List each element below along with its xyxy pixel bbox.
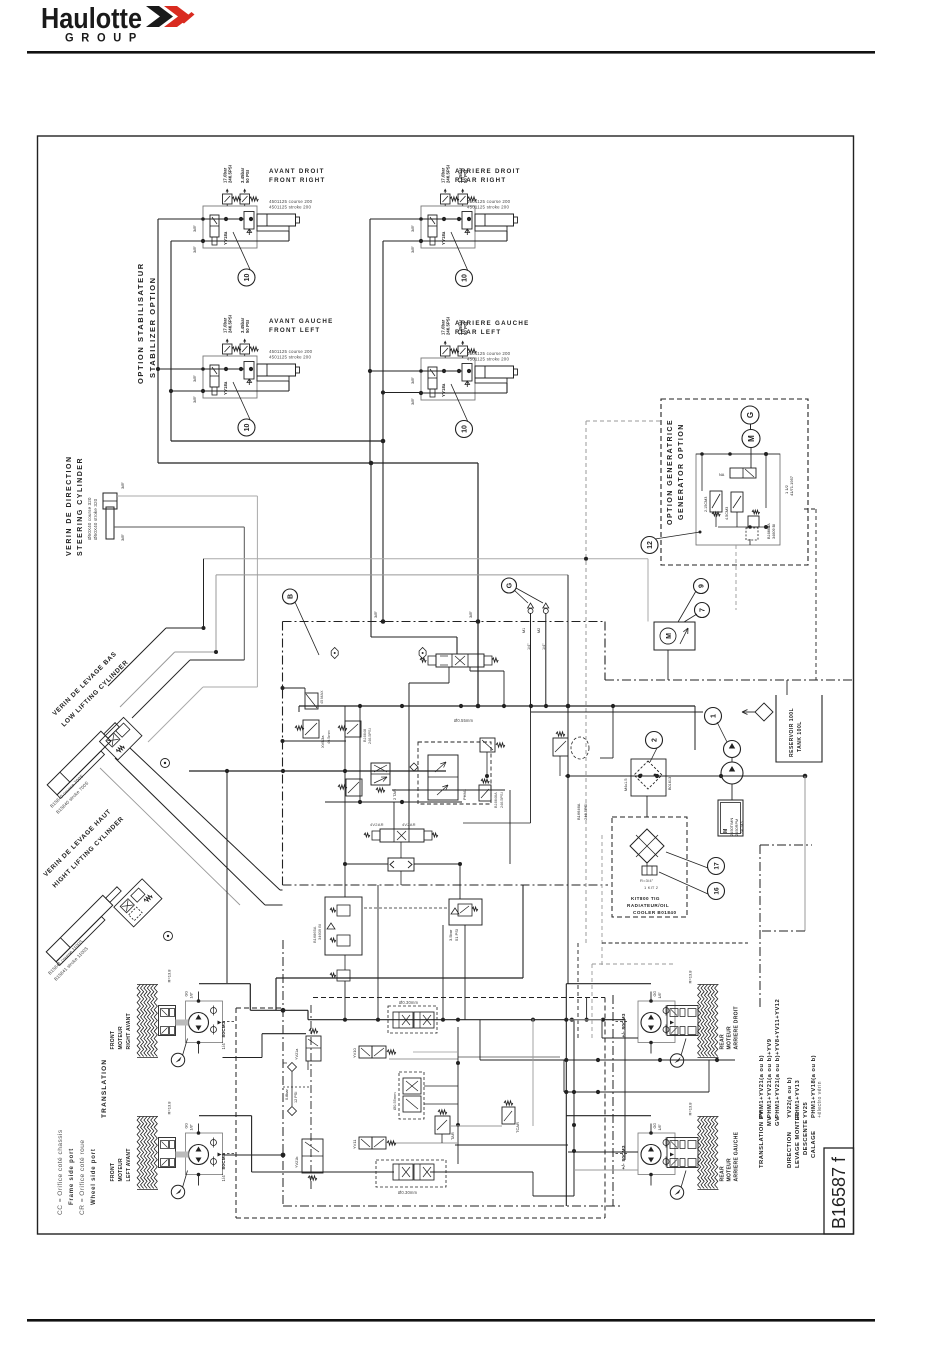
svg-text:2 TAR: 2 TAR (392, 789, 397, 800)
svg-text:YV21a: YV21a (295, 1048, 299, 1060)
svg-text:+/- 80CM3: +/- 80CM3 (621, 1013, 626, 1037)
svg-text:STABILIZER OPTION: STABILIZER OPTION (148, 276, 157, 378)
svg-text:B16587 f: B16587 f (829, 1156, 849, 1229)
svg-text:3/8": 3/8" (192, 245, 197, 253)
svg-text:R=13.8: R=13.8 (167, 1101, 172, 1115)
svg-text:Ø0.55mm: Ø0.55mm (392, 1092, 397, 1110)
svg-text:4501125 course 200: 4501125 course 200 (467, 351, 511, 356)
svg-text:TANK 100L: TANK 100L (797, 721, 803, 752)
svg-text:4501125 course 200: 4501125 course 200 (269, 199, 313, 204)
svg-text:KIT800 TIG: KIT800 TIG (631, 896, 660, 901)
svg-text:R=13.8: R=13.8 (167, 969, 172, 983)
svg-text:ARRIERE GAUCHE: ARRIERE GAUCHE (455, 320, 530, 327)
svg-text:YV11: YV11 (352, 1139, 357, 1149)
svg-text:12: 12 (647, 541, 654, 549)
svg-text:17: 17 (713, 862, 720, 870)
svg-text:REAR LEFT: REAR LEFT (455, 329, 501, 336)
svg-text:3/8": 3/8" (192, 395, 197, 403)
svg-text:246.5PSI: 246.5PSI (228, 315, 233, 333)
svg-text:3/8": 3/8" (410, 245, 415, 253)
svg-text:B16865A: B16865A (767, 523, 771, 539)
svg-text:FRONT: FRONT (110, 1031, 116, 1050)
svg-text:3/8": 3/8" (192, 224, 197, 232)
svg-text:ARRIERE DROIT: ARRIERE DROIT (455, 168, 521, 175)
svg-text:3/8": 3/8" (120, 481, 125, 489)
svg-text:80CM3: 80CM3 (221, 1153, 226, 1169)
svg-text:4.5CM3: 4.5CM3 (725, 507, 729, 520)
svg-text:DESCENTE: DESCENTE (803, 1119, 809, 1155)
svg-text:80CM3: 80CM3 (221, 1021, 226, 1037)
svg-text:41/71.1957: 41/71.1957 (789, 475, 794, 496)
svg-text:2.15CM3: 2.15CM3 (704, 497, 708, 512)
svg-text:1/4": 1/4" (527, 643, 531, 650)
svg-text:1/4": 1/4" (221, 1173, 226, 1181)
svg-text:MOTEUR: MOTEUR (727, 1026, 733, 1050)
svg-text:OPTION GENERATRICE: OPTION GENERATRICE (667, 419, 674, 525)
svg-text:B: B (288, 594, 295, 599)
svg-text:FRONT LEFT: FRONT LEFT (269, 327, 321, 334)
svg-text:B16648: B16648 (363, 729, 367, 742)
svg-text:GG: GG (653, 1123, 657, 1129)
svg-text:1/8": 1/8" (658, 992, 662, 999)
svg-text:R=3/4": R=3/4" (640, 878, 654, 883)
svg-text:LEFT AVANT: LEFT AVANT (126, 1148, 132, 1181)
svg-text:45 MAX: 45 MAX (320, 690, 324, 704)
svg-text:B16646A: B16646A (494, 792, 498, 808)
svg-text:CR = Orifice coté roue: CR = Orifice coté roue (79, 1140, 86, 1215)
svg-text:3.5bar: 3.5bar (448, 929, 453, 941)
svg-text:M: M (747, 435, 756, 442)
svg-text:NA: NA (719, 473, 725, 477)
svg-text:YV22(a ou b): YV22(a ou b) (787, 1077, 793, 1118)
svg-text:40.5mm: 40.5mm (327, 730, 331, 744)
svg-text:1/8": 1/8" (190, 992, 194, 999)
svg-text:10: 10 (244, 424, 251, 432)
svg-text:PHM1+YV13: PHM1+YV13 (795, 1080, 801, 1118)
svg-text:TAR: TAR (450, 1132, 455, 1140)
svg-text:MOTEUR: MOTEUR (727, 1158, 733, 1182)
svg-text:B16646A: B16646A (576, 803, 581, 820)
svg-text:MOTEUR: MOTEUR (118, 1158, 124, 1182)
svg-text:Ø0.55mm: Ø0.55mm (454, 718, 473, 723)
svg-text:10: 10 (462, 425, 469, 433)
svg-text:0.8bar: 0.8bar (285, 1088, 289, 1100)
svg-text:Ø0.30mm: Ø0.30mm (398, 1190, 417, 1195)
svg-text:FRONT RIGHT: FRONT RIGHT (269, 177, 326, 184)
svg-text:PHM1+YV21(a ou b)+YV9: PHM1+YV21(a ou b)+YV9 (767, 1038, 773, 1118)
svg-text:B01613: B01613 (668, 777, 672, 790)
svg-text:YV10: YV10 (352, 1047, 357, 1058)
svg-text:3/8": 3/8" (192, 374, 197, 382)
svg-text:51 PSI: 51 PSI (454, 929, 459, 941)
svg-text:2: 2 (652, 738, 659, 742)
svg-text:3/8": 3/8" (373, 610, 378, 618)
svg-text:STEERING CYLINDER: STEERING CYLINDER (77, 457, 84, 556)
svg-text:24CM3: 24CM3 (739, 821, 744, 834)
svg-text:4501125 stroke 200: 4501125 stroke 200 (467, 357, 509, 362)
svg-text:1/8": 1/8" (658, 1124, 662, 1131)
svg-text:GROUP: GROUP (65, 33, 144, 45)
svg-text:12 PSI: 12 PSI (294, 1092, 298, 1103)
svg-text:G: G (507, 582, 514, 588)
svg-text:GENERATOR OPTION: GENERATOR OPTION (678, 423, 685, 520)
svg-text:50 PSI: 50 PSI (245, 170, 250, 183)
svg-text:10: 10 (244, 274, 251, 282)
svg-text:GG: GG (185, 991, 189, 997)
svg-text:YV21b: YV21b (295, 1157, 299, 1168)
svg-text:TRANSLATION: TRANSLATION (101, 1059, 108, 1118)
svg-text:4501125 course 200: 4501125 course 200 (467, 199, 511, 204)
svg-text:3/8": 3/8" (410, 376, 415, 384)
svg-text:Wheel side port: Wheel side port (91, 1148, 97, 1205)
svg-text:9: 9 (699, 584, 706, 588)
svg-text:Frame side port: Frame side port (69, 1148, 75, 1205)
svg-text:4501125 course 200: 4501125 course 200 (269, 349, 313, 354)
svg-text:Haulotte: Haulotte (41, 3, 142, 35)
svg-text:REAR: REAR (720, 1034, 726, 1049)
svg-text:1 KIT 2: 1 KIT 2 (644, 885, 659, 890)
svg-text:REAR RIGHT: REAR RIGHT (455, 177, 507, 184)
svg-text:3/8": 3/8" (410, 224, 415, 232)
svg-text:1/4": 1/4" (542, 643, 546, 650)
svg-text:4501125 stroke 200: 4501125 stroke 200 (467, 205, 509, 210)
svg-text:PHM1+YV21(a ou b)+YV8+YV11+YV1: PHM1+YV21(a ou b)+YV8+YV11+YV12 (775, 999, 781, 1118)
svg-text:4V2AR: 4V2AR (370, 822, 384, 827)
svg-text:3/8": 3/8" (410, 397, 415, 405)
svg-text:Ø0.30mm: Ø0.30mm (399, 1000, 418, 1005)
svg-text:YV25: YV25 (803, 1102, 809, 1118)
svg-text:+électro vérin: +électro vérin (817, 1081, 823, 1118)
svg-text:ARRIERE GAUCHE: ARRIERE GAUCHE (734, 1131, 740, 1181)
svg-text:YV18a: YV18a (441, 383, 446, 397)
svg-text:LEVAGE MONTEE: LEVAGE MONTEE (795, 1112, 801, 1168)
svg-text:OPTION STABILISATEUR: OPTION STABILISATEUR (136, 262, 145, 384)
svg-text:CALAGE: CALAGE (811, 1131, 817, 1158)
svg-text:YV18a: YV18a (223, 231, 228, 245)
svg-text:246.5PSI: 246.5PSI (446, 165, 451, 183)
svg-text:M4x1.5: M4x1.5 (624, 779, 628, 791)
svg-text:4501125 stroke 200: 4501125 stroke 200 (269, 355, 311, 360)
svg-text:YV18a: YV18a (223, 381, 228, 395)
svg-text:246.5PSI: 246.5PSI (500, 792, 504, 808)
svg-text:246.5PSI: 246.5PSI (368, 728, 372, 744)
svg-text:AVANT DROIT: AVANT DROIT (269, 168, 325, 175)
svg-text:TCAR: TCAR (515, 1122, 520, 1133)
svg-text:REAR: REAR (720, 1166, 726, 1181)
svg-text:34609 BI: 34609 BI (772, 524, 776, 539)
svg-text:RESERVOIR 100L: RESERVOIR 100L (789, 708, 795, 757)
svg-text:GG: GG (185, 1123, 189, 1129)
svg-text:M2: M2 (537, 628, 541, 633)
svg-text:MOTEUR: MOTEUR (118, 1026, 124, 1050)
svg-text:4V2AR: 4V2AR (402, 822, 416, 827)
svg-text:COOLER B01840: COOLER B01840 (633, 910, 677, 915)
svg-text:M1: M1 (522, 628, 526, 633)
svg-text:3/8": 3/8" (120, 533, 125, 541)
svg-text:10: 10 (462, 274, 469, 282)
svg-text:Ø50X40 stroke 320: Ø50X40 stroke 320 (93, 498, 98, 540)
svg-text:7: 7 (700, 608, 707, 612)
svg-text:ARRIERE DROIT: ARRIERE DROIT (734, 1006, 740, 1049)
svg-text:50 PSI: 50 PSI (245, 320, 250, 333)
svg-text:R=13.8: R=13.8 (688, 970, 693, 984)
svg-text:1/8": 1/8" (190, 1124, 194, 1131)
svg-text:DIRECTION: DIRECTION (787, 1132, 793, 1168)
svg-text:4501125 stroke 200: 4501125 stroke 200 (269, 205, 311, 210)
svg-text:Ø50X40 course 320: Ø50X40 course 320 (87, 497, 92, 540)
svg-text:G: G (746, 412, 755, 418)
svg-text:YV18a: YV18a (441, 231, 446, 245)
svg-text:GG: GG (653, 991, 657, 997)
svg-text:34609 BI: 34609 BI (317, 924, 322, 940)
svg-text:1/4": 1/4" (221, 1041, 226, 1049)
svg-text:246.5PSI: 246.5PSI (446, 317, 451, 335)
svg-text:+/- 80CM3: +/- 80CM3 (621, 1145, 626, 1169)
svg-text:3/8": 3/8" (468, 610, 473, 618)
svg-text:AVANT GAUCHE: AVANT GAUCHE (269, 318, 334, 325)
svg-text:R=13.8: R=13.8 (688, 1102, 693, 1116)
svg-text:RADIATEUR/OIL: RADIATEUR/OIL (627, 903, 669, 908)
svg-text:CC = Orifice coté chassis: CC = Orifice coté chassis (57, 1129, 64, 1215)
svg-text:246.5PSI: 246.5PSI (583, 804, 588, 820)
svg-text:PHM1+YV21(a ou b): PHM1+YV21(a ou b) (759, 1055, 765, 1118)
svg-text:1: 1 (711, 714, 718, 718)
svg-text:16: 16 (713, 887, 720, 895)
svg-text:FRONT: FRONT (110, 1163, 116, 1182)
svg-text:VERIN DE DIRECTION: VERIN DE DIRECTION (66, 455, 73, 556)
svg-text:RIGHT AVANT: RIGHT AVANT (126, 1013, 132, 1050)
svg-text:M: M (666, 633, 673, 639)
svg-text:246.5PSI: 246.5PSI (228, 165, 233, 183)
svg-text:TRANSLATION PV: TRANSLATION PV (759, 1111, 765, 1168)
